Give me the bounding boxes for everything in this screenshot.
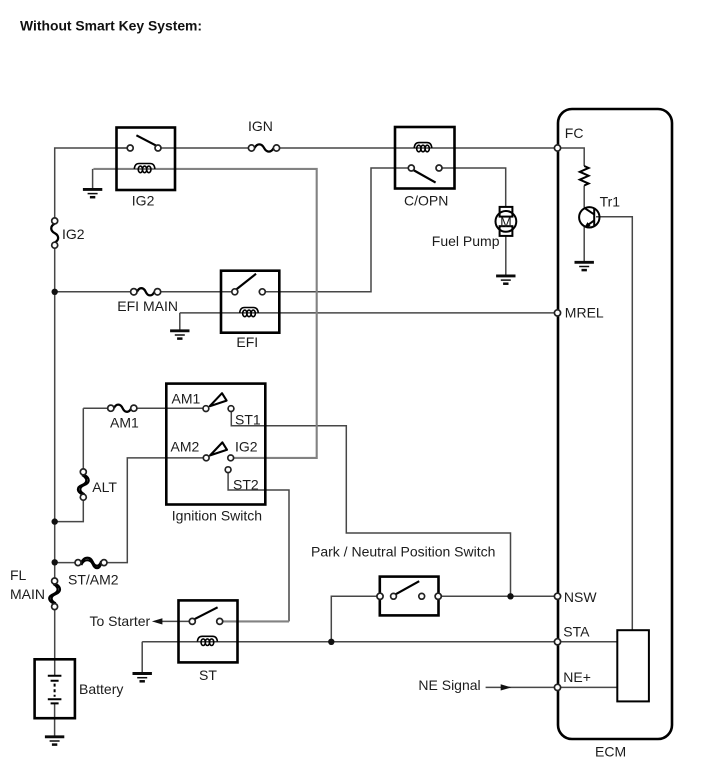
fuse FL MAIN terminals <box>52 578 58 584</box>
wire: AM1 fuse row to ignition switch AM1 <box>83 407 203 409</box>
wire: Tr1 emitter to ground <box>583 227 585 261</box>
ECM pin MREL <box>554 310 560 316</box>
svg-text:NE Signal: NE Signal <box>418 677 480 693</box>
svg-text:FC: FC <box>565 125 584 141</box>
relay ST switch contacts <box>189 618 195 624</box>
ignition switch AM2 contact <box>203 455 209 461</box>
coil of relay EFI <box>240 308 259 317</box>
battery box <box>35 659 75 718</box>
wire: bus ALT branch <box>55 408 84 521</box>
lever of relay C/OPN <box>413 170 435 183</box>
fuse ALT double squiggle (vertical) <box>78 475 89 494</box>
wire: bus to EFI MAIN fuse to EFI relay <box>55 291 235 293</box>
svg-text:Fuel Pump: Fuel Pump <box>432 233 500 249</box>
svg-text:ALT: ALT <box>92 479 117 495</box>
svg-text:EFI MAIN: EFI MAIN <box>117 298 178 314</box>
svg-text:ST2: ST2 <box>233 477 259 493</box>
transistor Tr1 circle <box>579 207 599 227</box>
relay EFI switch contacts <box>232 289 238 295</box>
NE Signal arrowhead <box>501 684 512 690</box>
fuse EFI MAIN squiggle <box>137 288 154 295</box>
svg-text:MREL: MREL <box>565 305 604 321</box>
wire: bus FL MAIN fuse to battery plate <box>54 610 56 676</box>
svg-text:EFI: EFI <box>236 334 258 350</box>
wire: ST relay switch to ST2 riser (gray) <box>222 620 289 622</box>
relay ST box <box>179 600 238 662</box>
ignition switch AM1 contact <box>203 406 209 412</box>
junction node bus/EFI MAIN <box>52 289 58 295</box>
svg-text:To Starter: To Starter <box>90 613 151 629</box>
fuse ST/AM2 double squiggle <box>81 558 101 568</box>
svg-text:Ignition Switch: Ignition Switch <box>172 508 262 524</box>
svg-text:NE+: NE+ <box>563 669 591 685</box>
svg-text:AM1: AM1 <box>172 391 201 407</box>
junction node bus/ST-AM2 <box>52 559 58 565</box>
wire: NE+ pin to ECM block <box>561 686 618 688</box>
fuse EFI MAIN terminals <box>131 289 137 295</box>
relay IG2 switch contacts <box>127 145 133 151</box>
wire: STA pin to ECM block <box>561 641 618 643</box>
junction node bus/ALT <box>52 518 58 524</box>
svg-text:Without Smart Key System:: Without Smart Key System: <box>20 17 202 33</box>
svg-text:Park / Neutral Position Switch: Park / Neutral Position Switch <box>311 544 495 560</box>
junction node NSW line <box>507 593 513 599</box>
park/neutral switch terminals <box>377 593 383 599</box>
ground under EFI relay <box>170 331 189 339</box>
svg-text:FL: FL <box>10 567 27 583</box>
To Starter arrowhead <box>152 618 163 624</box>
wire: bus to ST/AM2 fuse to AM2 contact <box>55 458 204 563</box>
ground under Tr1 <box>575 262 594 270</box>
fuel pump motor tabs <box>500 207 513 217</box>
fuse ST/AM2 terminals <box>75 560 81 566</box>
relay C/OPN switch contacts <box>408 165 414 171</box>
ignition switch box <box>166 384 265 505</box>
svg-text:ST/AM2: ST/AM2 <box>68 572 119 588</box>
ECM pin NSW <box>554 593 560 599</box>
wire: park/neutral switch to ECM NSW pin <box>441 595 555 597</box>
lever of relay IG2 <box>136 135 157 146</box>
ignition switch ST2 contact <box>225 467 231 473</box>
svg-text:ECM: ECM <box>595 744 626 760</box>
ground under fuel pump <box>496 276 515 284</box>
wire: fuel pump to ground <box>505 236 507 276</box>
ECM pin NE+ <box>554 684 560 690</box>
wire: C/OPN relay output to fuel pump <box>439 168 506 207</box>
wire: NE Signal line <box>486 686 555 688</box>
svg-text:IG2: IG2 <box>62 226 85 242</box>
fuse AM1 squiggle <box>114 405 131 412</box>
ECM pin FC <box>554 145 560 151</box>
ground under battery <box>45 737 64 745</box>
svg-text:ST: ST <box>199 667 217 683</box>
svg-text:MAIN: MAIN <box>10 586 45 602</box>
fuel pump motor circle <box>496 211 517 232</box>
fuse AM1 terminals <box>108 405 114 411</box>
wire: IGN fuse to C/OPN coil to ECM FC pin <box>277 147 555 149</box>
wire: ST relay coil / STA line to ECM STA pin <box>142 641 554 643</box>
ignition switch ST1 contact <box>228 406 234 412</box>
resistor in ECM FC line <box>580 166 589 185</box>
fuse IG2 squiggle (vertical) <box>51 224 58 243</box>
park/neutral position switch box <box>380 577 439 616</box>
fuse IGN squiggle <box>255 144 274 151</box>
svg-text:Tr1: Tr1 <box>600 194 621 210</box>
wire: EFI relay coil to ground stem <box>179 313 181 331</box>
wire: FC pin to resistor to Tr1 collector <box>561 148 584 208</box>
wire: battery bus top segment (corner to IG2 fuse) <box>55 148 131 218</box>
wire: park/neutral switch left terminal to STA line <box>331 596 377 642</box>
ignition switch IG2 contact <box>228 455 234 461</box>
ground under ST relay <box>133 674 152 682</box>
svg-text:AM2: AM2 <box>171 439 200 455</box>
svg-text:IG2: IG2 <box>132 193 155 209</box>
fuse FL MAIN double squiggle (vertical) <box>49 584 60 603</box>
lever of relay ST <box>194 607 217 619</box>
wire: ST2 contact to ST relay <box>228 472 289 621</box>
ECM outline <box>558 109 672 739</box>
wire: ST1 contact to NSW junction <box>231 411 510 596</box>
svg-text:IG2: IG2 <box>235 439 258 455</box>
battery plates <box>48 676 62 699</box>
svg-text:STA: STA <box>563 624 590 640</box>
ignition switch AM1 key wedge <box>210 393 227 406</box>
fuse IG2 terminals <box>52 218 58 224</box>
wire: battery negative to ground <box>54 703 56 736</box>
wire: IG2 relay output to IGN fuse <box>175 147 252 149</box>
relay IG2 box <box>117 128 176 191</box>
svg-text:NSW: NSW <box>564 589 597 605</box>
relay EFI box <box>221 271 279 333</box>
wire: IG2 relay coil circuit (gray) to ignition switch IG2 <box>93 169 316 458</box>
fuse ALT terminals <box>80 469 86 475</box>
park/neutral switch contacts <box>391 593 397 599</box>
wire: EFI relay coil to ECM MREL pin <box>180 312 555 314</box>
transistor Tr1 collector diagonal <box>584 208 594 215</box>
ground under IG2 relay <box>83 189 102 197</box>
svg-text:AM1: AM1 <box>110 414 139 430</box>
wire: IG2 relay coil ground stem (gray) <box>92 169 94 190</box>
junction node STA line <box>328 639 334 645</box>
transistor Tr1 base bar <box>593 208 595 227</box>
transistor Tr1 emitter diagonal with arrow <box>586 220 594 226</box>
ECM internal block <box>617 630 649 701</box>
wire: ST relay to To-Starter arrow <box>162 620 190 622</box>
wire: ST relay coil ground stem <box>141 642 143 674</box>
lever of relay EFI <box>237 274 257 289</box>
wire: Tr1 base to ECM internal block <box>596 217 632 630</box>
coil of relay ST <box>197 636 217 645</box>
svg-text:Battery: Battery <box>79 681 123 697</box>
relay C/OPN box <box>395 127 455 189</box>
wire: IG2 relay switch internal stubs <box>117 147 176 149</box>
ECM pin STA <box>554 639 560 645</box>
ignition switch AM2 key wedge <box>210 442 227 455</box>
coil of relay IG2 <box>134 164 155 173</box>
svg-text:IGN: IGN <box>248 118 273 134</box>
wire: EFI relay switch output to C/OPN relay switch <box>262 168 411 292</box>
wire: bus IG2 fuse to FL MAIN fuse <box>54 248 56 578</box>
lever of park/neutral switch <box>396 581 420 594</box>
svg-text:M: M <box>500 214 512 230</box>
svg-text:ST1: ST1 <box>235 412 261 428</box>
coil of relay C/OPN <box>414 143 432 152</box>
fuse IGN terminals <box>248 145 254 151</box>
svg-text:C/OPN: C/OPN <box>404 193 448 209</box>
